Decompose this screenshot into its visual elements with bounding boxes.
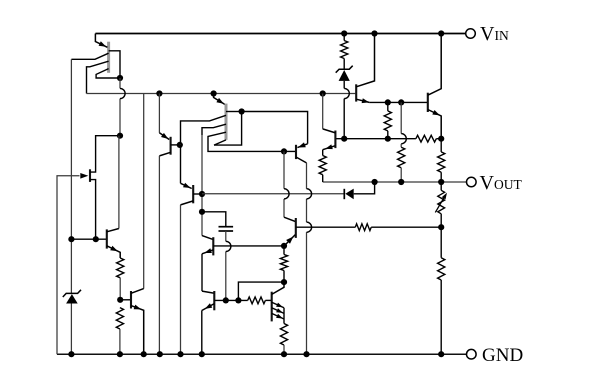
transistor Q8 bar bbox=[334, 131, 336, 149]
transistor Q5 collector bbox=[181, 201, 194, 354]
transistor Q14 bar bbox=[271, 292, 273, 322]
wire y212 cap lead bbox=[202, 212, 226, 227]
transistor Q9 collector bbox=[428, 34, 441, 96]
transistor Q8 emitter bbox=[323, 146, 336, 150]
transistor Q2 collector C4 bbox=[214, 140, 226, 145]
transistor Q9 emitter bbox=[428, 110, 441, 139]
node L2 dot x238/y300 bbox=[235, 297, 241, 303]
transistor Q14 emitter E2 bbox=[272, 308, 284, 314]
transistor Q12 emitter bbox=[202, 250, 213, 291]
node dot x95/y239 bbox=[93, 236, 99, 242]
terminal VIN bbox=[466, 29, 476, 39]
wire VOUT rail bbox=[323, 181, 467, 183]
node dot x374 on VIN rail bbox=[371, 30, 377, 36]
wire x143 vertical bbox=[143, 94, 145, 289]
transistor Q14 emitter E1 arrow bbox=[276, 303, 283, 308]
transistor Q5 emitter arrow bbox=[183, 183, 191, 188]
transistor Q1 bar bbox=[107, 42, 110, 73]
wire Q2 base to node H bbox=[226, 111, 242, 113]
wire R8 to x441 bbox=[371, 226, 441, 228]
wire Q14 emitters join bbox=[283, 308, 285, 324]
wire Q5 base to node J1 bbox=[193, 193, 202, 195]
wire cap bottom bbox=[225, 231, 227, 300]
transistor Q15 emitter arrow bbox=[286, 237, 293, 244]
transistor Q10 collector bbox=[107, 136, 119, 232]
node B dot x159 on y93 bbox=[156, 90, 162, 96]
transistor Q14 collector bbox=[272, 282, 284, 294]
junction dot GND x284 bbox=[281, 351, 287, 357]
transistor Q2 collector C1 bbox=[181, 115, 227, 145]
wire R4 to x441 bbox=[436, 138, 441, 140]
junction dot GND x180 bbox=[177, 351, 183, 357]
node dot x71/y239 bbox=[68, 236, 74, 242]
transistor Q4 collector bbox=[159, 152, 170, 354]
terminal VOUT bbox=[467, 177, 477, 187]
wire left rail x71 bbox=[70, 59, 72, 288]
wire x306 down bbox=[306, 199, 308, 354]
node E dot x120/y135 bbox=[117, 133, 123, 139]
wire node K down bbox=[283, 151, 285, 217]
transistor Q2 collector C2 bbox=[202, 124, 226, 135]
transistor Q11 collector bbox=[131, 289, 144, 294]
resistor VR1 arrow line bbox=[435, 195, 445, 212]
wire bias line y93 bbox=[87, 93, 356, 95]
transistor Q1 emitter bbox=[95, 34, 107, 48]
wire x238 up and right bbox=[238, 282, 284, 300]
transistor Q3 top lead bbox=[90, 136, 120, 172]
wire R3 leads bbox=[400, 144, 402, 182]
hop x401 over y139 bbox=[401, 134, 406, 144]
resistor R1 bbox=[341, 41, 348, 59]
resistor R14 bbox=[116, 308, 123, 329]
node dot x344 on VIN rail bbox=[341, 30, 347, 36]
label VOUT bbox=[480, 172, 523, 194]
node dot x441/y227 bbox=[438, 224, 444, 230]
wire y102 line bbox=[369, 101, 427, 103]
transistor Q3 bar bbox=[89, 169, 91, 182]
node dot x401/VOUT bbox=[398, 179, 404, 185]
resistor R8 bbox=[355, 224, 371, 231]
transistor Q2 collector C3 bbox=[208, 132, 295, 151]
transistor Q10 bar bbox=[106, 229, 108, 248]
label VIN bbox=[480, 23, 509, 45]
resistor R3 bbox=[398, 147, 405, 168]
transistor Q10 emitter bbox=[107, 246, 120, 258]
transistor Q7 emitter bbox=[356, 99, 369, 102]
transistor Q1 collector C3 bbox=[96, 69, 120, 78]
diode D1 triangle bbox=[345, 189, 353, 200]
transistor Q5 bar bbox=[192, 185, 194, 203]
resistor R5 bbox=[438, 152, 445, 172]
wire node G to Q5 emitter bbox=[179, 145, 182, 183]
wire R13 to node F bbox=[119, 278, 121, 300]
wire y194 line bbox=[202, 193, 344, 195]
wire node H to Q6 emitter bbox=[242, 112, 308, 144]
transistor Q13 collector bbox=[202, 291, 214, 293]
junction dot GND x119 bbox=[117, 351, 123, 357]
transistor Q14 emitter E1 bbox=[272, 302, 284, 308]
resistor R12 bbox=[248, 297, 266, 304]
transistor Q13 emitter bbox=[202, 304, 215, 355]
zener Z2 triangle bbox=[339, 70, 350, 81]
transistor Q13 bar bbox=[213, 291, 215, 310]
wire GND rail bbox=[57, 353, 466, 355]
transistor Q14 emitter E2 arrow bbox=[276, 308, 283, 313]
wire Q15 base y227 bbox=[296, 226, 356, 228]
transistor Q11 emitter bbox=[131, 306, 144, 355]
hop x225 over y246 bbox=[226, 241, 231, 251]
node dot x441/y139 bbox=[438, 136, 444, 142]
node N dot x284/y246 bbox=[281, 243, 287, 249]
wire x401 upper bbox=[400, 102, 402, 133]
node A dot (Q1 base/C3 tie) bbox=[117, 75, 123, 81]
transistor Q14 emitter E3 arrow bbox=[276, 314, 283, 319]
svg-text:GND: GND bbox=[482, 345, 523, 366]
node dot x374/VOUT bbox=[372, 179, 378, 185]
transistor Q5 emitter bbox=[181, 183, 192, 188]
transistor Q8 collector bbox=[323, 94, 336, 133]
hop x120 over y93 bbox=[120, 88, 125, 98]
wire Q1 base to node A bbox=[109, 51, 120, 78]
wire top VIN rail bbox=[95, 33, 465, 35]
transistor Q1 emitter arrow bbox=[99, 41, 107, 46]
transistor Q7 collector bbox=[356, 34, 374, 87]
resistor R4 bbox=[416, 135, 436, 142]
wire R11 to GND bbox=[283, 345, 285, 354]
resistor R7 bbox=[438, 258, 445, 280]
transistor Q6 emitter arrow bbox=[298, 142, 306, 147]
junction dot GND x441 bbox=[438, 351, 444, 357]
wire VR1 leads bbox=[440, 182, 442, 227]
resistor R10 bbox=[280, 255, 287, 271]
transistor Q2 emitter bbox=[214, 94, 226, 105]
wire Z2 down bbox=[343, 81, 345, 139]
zener Z1 triangle bbox=[66, 294, 78, 303]
transistor Q6 bar bbox=[295, 145, 297, 159]
wire R1 leads bbox=[343, 34, 345, 69]
transistor Q13 emitter arrow bbox=[205, 303, 213, 309]
resistor VR1 arrowhead bbox=[442, 193, 447, 200]
hop x284 over y194 bbox=[284, 189, 289, 199]
node F dot x120/y300 bbox=[117, 297, 123, 303]
transistor Q6 emitter bbox=[297, 144, 307, 148]
wire y139 line bbox=[335, 138, 416, 140]
hop x344 over y93 bbox=[344, 88, 349, 98]
transistor Q3 emitter arrow bbox=[80, 173, 88, 179]
node dot x387/y139 bbox=[385, 136, 391, 142]
resistor R9 bbox=[319, 156, 326, 175]
wire x202 to node J bbox=[201, 135, 203, 236]
transistor Q7 bar bbox=[355, 84, 357, 101]
node K dot x284/y151 bbox=[281, 148, 287, 154]
transistor Q6 collector bbox=[296, 157, 307, 189]
transistor Q1 collector C2 bbox=[87, 61, 109, 93]
wire R10 leads bbox=[283, 246, 285, 282]
wire Q4 base to node G bbox=[171, 144, 180, 146]
resistor R11 bbox=[280, 324, 287, 346]
terminal GND bbox=[467, 349, 477, 359]
node J1 dot x202/y194 bbox=[199, 191, 205, 197]
wire GND to Q3 emitter bbox=[57, 176, 80, 354]
node dot x441 on VIN rail bbox=[438, 30, 444, 36]
resistor R13 bbox=[117, 258, 124, 278]
node J2 dot x202/y212 bbox=[199, 209, 205, 215]
transistor Q15 emitter bbox=[284, 235, 295, 246]
hop x306 over y194 bbox=[307, 189, 312, 199]
node G dot bbox=[177, 142, 183, 148]
wire base line y239 bbox=[71, 238, 106, 240]
wire R9 leads bbox=[322, 150, 324, 182]
diode D1 cathode bar bbox=[343, 189, 345, 199]
wire R5 leads bbox=[440, 139, 442, 182]
wire x202 Q12 collector bbox=[202, 236, 213, 240]
transistor Q14 emitter E3 bbox=[272, 313, 284, 319]
capacitor C1 bottom plate bbox=[219, 230, 234, 232]
transistor Q10 emitter arrow bbox=[110, 246, 118, 251]
junction dot GND x159 bbox=[157, 351, 163, 357]
wire node H base tie down bbox=[214, 112, 242, 146]
resistor R2 bbox=[384, 111, 391, 131]
node dot x401/y102 bbox=[398, 99, 404, 105]
transistor Q11 bar bbox=[130, 291, 132, 309]
node dot x441/VOUT bbox=[438, 179, 444, 185]
node L1 dot x225/y300 bbox=[223, 297, 229, 303]
node dot x387/y102 bbox=[385, 99, 391, 105]
transistor Q15 collector bbox=[284, 217, 296, 221]
wire R2 leads bbox=[387, 102, 389, 138]
label GND bbox=[482, 345, 523, 366]
transistor Q1 collector C1 bbox=[71, 53, 108, 59]
transistor Q12 emitter arrow bbox=[204, 248, 212, 253]
wire x120 upper segment bbox=[119, 78, 121, 136]
zener Z2 cathode bar bbox=[336, 66, 353, 73]
node dot x344/y139 bbox=[341, 136, 347, 142]
wire node B to Q4 emitter bbox=[158, 94, 160, 133]
node M dot x284/y282 bbox=[281, 279, 287, 285]
transistor Q3 bottom lead bbox=[90, 180, 96, 240]
resistor VR1 bbox=[438, 190, 445, 214]
transistor Q9 bar bbox=[427, 93, 429, 112]
transistor Q8 emitter arrow bbox=[325, 144, 333, 149]
zener Z1 cathode bar bbox=[63, 290, 81, 297]
wire x71 zener upper bbox=[70, 289, 72, 294]
transistor Q4 emitter bbox=[159, 133, 169, 140]
transistor Q4 emitter arrow bbox=[161, 133, 168, 139]
transistor Q2 emitter arrow bbox=[216, 98, 223, 104]
wire R7 leads bbox=[440, 227, 442, 354]
transistor Q15 bar bbox=[295, 218, 297, 238]
wire Q13 base y300 bbox=[214, 299, 247, 301]
node H dot bbox=[239, 108, 245, 114]
capacitor C1 top plate bbox=[219, 226, 234, 228]
transistor Q11 emitter arrow bbox=[134, 305, 142, 310]
node C dot x213 on y93 bbox=[211, 90, 217, 96]
node D dot x322 on y93 bbox=[320, 90, 326, 96]
wire node F to Q11 base bbox=[120, 299, 131, 301]
junction dot GND x143 bbox=[141, 351, 147, 357]
wire Q12 base line y246 bbox=[213, 245, 284, 247]
wire Z1 to GND bbox=[70, 304, 72, 355]
transistor Q4 bar bbox=[170, 137, 172, 155]
junction dot GND x306 bbox=[303, 351, 309, 357]
transistor Q7 emitter arrow bbox=[362, 98, 370, 103]
transistor Q2 bar bbox=[225, 104, 228, 140]
wire R14 to GND bbox=[119, 329, 121, 354]
transistor Q12 bar bbox=[212, 237, 214, 255]
junction dot GND x201 bbox=[199, 351, 205, 357]
junction dot GND x71 bbox=[68, 351, 74, 357]
hop x306 over y227 bbox=[307, 222, 312, 232]
wire R12 to Q14 base bbox=[265, 299, 271, 301]
wire D1 anode to VOUT bbox=[354, 182, 375, 194]
transistor Q9 emitter arrow bbox=[432, 110, 440, 115]
